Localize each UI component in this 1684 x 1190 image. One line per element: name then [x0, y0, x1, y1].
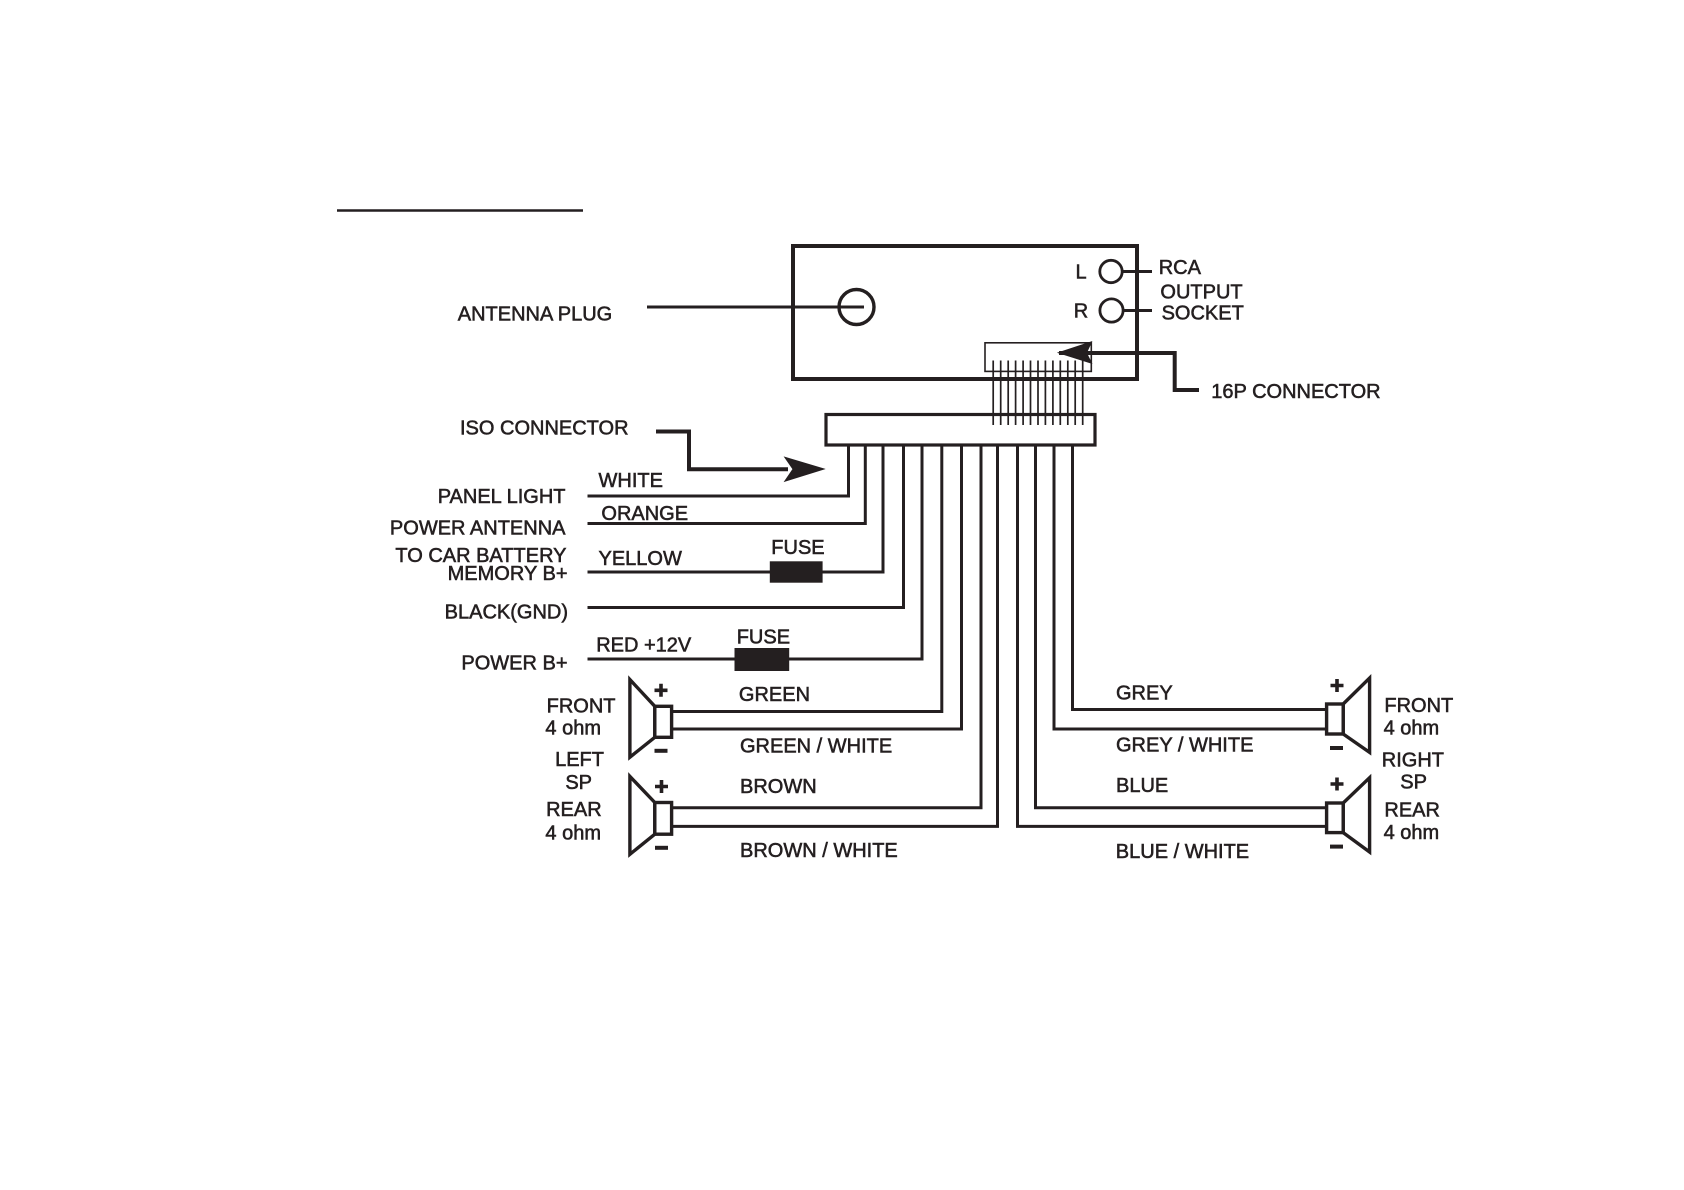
svg-text:L: L	[1075, 261, 1086, 283]
svg-text:4 ohm: 4 ohm	[545, 822, 601, 844]
wire: 16P pointer	[1059, 353, 1199, 390]
svg-text:ORANGE: ORANGE	[601, 503, 688, 525]
svg-text:REAR: REAR	[546, 799, 602, 821]
svg-text:FUSE: FUSE	[737, 626, 790, 648]
plus terminal SP2	[655, 780, 668, 793]
wire pin9 BROWN/WHITE	[672, 444, 998, 826]
wire pin4 BLACK GND	[588, 444, 904, 608]
svg-text:GREY: GREY	[1116, 682, 1173, 704]
svg-text:RED +12V: RED +12V	[596, 635, 692, 657]
svg-text:BROWN / WHITE: BROWN / WHITE	[740, 840, 898, 862]
wire pin2 ORANGE	[588, 444, 866, 524]
svg-text:4 ohm: 4 ohm	[545, 718, 601, 740]
speaker SP3 front-right cone	[1343, 678, 1369, 752]
fuse F1 (yellow line)	[770, 561, 823, 582]
16P connector pins (13 thin)	[993, 361, 1082, 426]
head unit U1 (main rectangle)	[793, 246, 1137, 379]
svg-text:ISO CONNECTOR: ISO CONNECTOR	[460, 418, 629, 440]
svg-text:SP: SP	[1400, 771, 1427, 793]
wire pin10 BLUE/WHITE	[1018, 444, 1327, 826]
plus terminal SP4	[1331, 778, 1344, 791]
svg-text:FUSE: FUSE	[771, 537, 824, 559]
svg-text:REAR: REAR	[1384, 799, 1440, 821]
minus terminal SP1	[655, 749, 668, 753]
plus terminal SP3	[1331, 679, 1344, 692]
svg-text:BROWN: BROWN	[740, 776, 817, 798]
speaker SP1 front-left cone	[630, 680, 655, 758]
minus terminal SP3	[1330, 746, 1343, 750]
svg-text:MEMORY B+: MEMORY B+	[448, 563, 568, 585]
wire pin1 WHITE	[588, 444, 849, 496]
arrowhead of 16P pointer	[1059, 342, 1092, 363]
wire: antenna lead	[647, 306, 864, 309]
svg-text:OUTPUT: OUTPUT	[1160, 281, 1242, 303]
svg-text:SOCKET: SOCKET	[1162, 303, 1244, 325]
svg-text:FRONT: FRONT	[1384, 695, 1453, 717]
svg-text:BLUE: BLUE	[1116, 775, 1168, 797]
svg-text:SP: SP	[565, 772, 592, 794]
plus terminal SP1	[655, 684, 668, 697]
svg-text:BLACK(GND): BLACK(GND)	[445, 602, 568, 624]
svg-text:BLUE / WHITE: BLUE / WHITE	[1116, 841, 1249, 863]
wire: ISO pointer	[656, 432, 788, 470]
svg-text:16P CONNECTOR: 16P CONNECTOR	[1211, 381, 1380, 403]
wire pin12 GREY/WHITE	[1054, 444, 1327, 729]
wire pin7 GREEN/WHITE	[672, 444, 962, 729]
svg-text:RIGHT: RIGHT	[1382, 749, 1444, 771]
svg-text:RCA: RCA	[1159, 257, 1202, 279]
speaker SP1 front-left driver	[655, 706, 672, 737]
svg-text:4 ohm: 4 ohm	[1384, 822, 1440, 844]
node L (RCA left socket)	[1100, 260, 1122, 282]
wire pin13 GREY	[1073, 444, 1327, 710]
wire pin6 GREEN	[672, 444, 942, 712]
speaker SP2 rear-left driver	[655, 803, 672, 835]
wire pin5 RED	[588, 444, 923, 659]
wire: top underline	[337, 209, 583, 211]
minus terminal SP4	[1330, 845, 1343, 849]
svg-text:4 ohm: 4 ohm	[1384, 718, 1440, 740]
svg-text:GREEN: GREEN	[739, 684, 810, 706]
svg-text:PANEL LIGHT: PANEL LIGHT	[438, 486, 566, 508]
svg-text:POWER ANTENNA: POWER ANTENNA	[390, 517, 566, 539]
svg-text:ANTENNA PLUG: ANTENNA PLUG	[458, 303, 612, 325]
svg-text:WHITE: WHITE	[599, 470, 663, 492]
svg-text:FRONT: FRONT	[547, 696, 616, 718]
arrowhead of ISO pointer	[785, 457, 824, 481]
wire pin8 BROWN	[672, 444, 981, 808]
speaker SP2 rear-left cone	[630, 776, 655, 854]
fuse F2 (red line)	[735, 648, 790, 671]
svg-text:GREEN / WHITE: GREEN / WHITE	[740, 736, 892, 758]
node R (RCA right socket)	[1100, 299, 1123, 322]
wire pin3 YELLOW	[588, 444, 884, 572]
speaker SP3 front-right driver	[1327, 704, 1344, 734]
minus terminal SP2	[655, 846, 668, 850]
speaker SP4 rear-right cone	[1343, 778, 1369, 852]
svg-text:YELLOW: YELLOW	[599, 548, 682, 570]
wire: L socket lead	[1122, 270, 1152, 273]
svg-text:GREY / WHITE: GREY / WHITE	[1116, 734, 1253, 756]
ISO connector bar	[826, 415, 1095, 446]
svg-text:R: R	[1074, 300, 1088, 322]
speaker SP4 rear-right driver	[1327, 803, 1344, 833]
svg-text:LEFT: LEFT	[555, 749, 604, 771]
antenna plug circle	[839, 290, 874, 325]
wire: R socket lead	[1123, 309, 1152, 312]
svg-text:POWER B+: POWER B+	[461, 653, 567, 675]
16P connector body	[985, 343, 1091, 372]
wire pin11 BLUE	[1036, 444, 1327, 808]
